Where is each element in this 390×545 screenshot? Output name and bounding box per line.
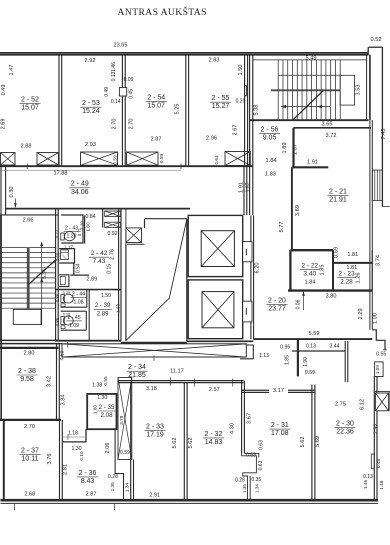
svg-text:15.07: 15.07 bbox=[147, 103, 165, 110]
elevator shaft 2 outer box bbox=[188, 280, 243, 339]
wall room 2-52 | 2-53 bbox=[58, 55, 60, 166]
svg-text:0.26: 0.26 bbox=[235, 477, 245, 483]
svg-text:1.81: 1.81 bbox=[347, 252, 358, 258]
svg-text:2.96: 2.96 bbox=[206, 136, 217, 142]
svg-text:0.06: 0.06 bbox=[295, 299, 301, 309]
rooms 22/23 bottom wall bbox=[288, 289, 372, 291]
left outer wall lower bbox=[0, 215, 2, 342]
svg-text:5.77: 5.77 bbox=[279, 222, 285, 233]
svg-text:1.18: 1.18 bbox=[68, 430, 78, 436]
svg-text:1.35: 1.35 bbox=[242, 484, 247, 493]
room 2-36 top wall and step bbox=[62, 441, 86, 443]
svg-text:5.62: 5.62 bbox=[172, 438, 178, 449]
cubicle column right wall bbox=[118, 209, 120, 341]
room 2-30 right wall bbox=[373, 376, 375, 500]
svg-text:0.25: 0.25 bbox=[63, 291, 70, 295]
elevator shaft 1 X bbox=[201, 231, 234, 267]
svg-text:3.78: 3.78 bbox=[119, 415, 124, 425]
closet small box bbox=[59, 275, 69, 287]
room 2-37 right wall bbox=[59, 420, 61, 500]
stair direction arrow horizontal bbox=[281, 106, 330, 108]
svg-text:2.67: 2.67 bbox=[233, 125, 239, 136]
sink symbol bbox=[61, 250, 69, 260]
radiator box room 52 bbox=[37, 153, 59, 166]
room 2-38 right wall bbox=[56, 343, 58, 420]
svg-text:0.92: 0.92 bbox=[107, 231, 117, 237]
svg-text:0.52: 0.52 bbox=[371, 37, 382, 43]
svg-text:8.43: 8.43 bbox=[81, 478, 95, 485]
stairwell diagonal bbox=[28, 259, 56, 284]
svg-text:2.80: 2.80 bbox=[24, 350, 35, 356]
svg-text:1.90: 1.90 bbox=[303, 357, 309, 367]
stairwell lower landing void bbox=[13, 309, 41, 324]
radiator box room 55 bbox=[225, 152, 250, 166]
svg-text:0.59: 0.59 bbox=[159, 154, 164, 164]
room 2-37 top wall bbox=[0, 419, 61, 421]
svg-text:2.29: 2.29 bbox=[358, 309, 364, 320]
bottom corridor jog near 1.13 bbox=[240, 345, 253, 359]
svg-text:2 - 37: 2 - 37 bbox=[21, 447, 39, 454]
svg-text:0.72: 0.72 bbox=[55, 229, 60, 238]
stair landing void rectangle bbox=[340, 75, 354, 105]
svg-text:1.47: 1.47 bbox=[9, 65, 15, 76]
svg-text:0.13: 0.13 bbox=[363, 474, 373, 480]
svg-text:9.58: 9.58 bbox=[20, 376, 34, 383]
bottom outer wall bbox=[1, 499, 379, 502]
room 2-56 top region walls bbox=[294, 127, 372, 129]
svg-text:2.69: 2.69 bbox=[0, 119, 6, 130]
svg-text:2 - 31: 2 - 31 bbox=[271, 422, 289, 429]
svg-text:0.69: 0.69 bbox=[305, 370, 315, 376]
svg-text:5.38: 5.38 bbox=[253, 105, 259, 116]
X box at x127 bbox=[126, 228, 142, 243]
svg-text:0.30: 0.30 bbox=[9, 187, 15, 198]
svg-text:2 - 32: 2 - 32 bbox=[205, 431, 223, 438]
svg-text:2.70: 2.70 bbox=[112, 119, 118, 130]
corridor 2-34 bottom wall (top of bottom rooms) bbox=[118, 380, 244, 382]
room 2-35 box bbox=[87, 394, 116, 429]
top-right step wall 0.52 strip bbox=[369, 46, 383, 48]
svg-text:3.42: 3.42 bbox=[47, 376, 53, 387]
svg-text:ANTRAS AUKŠTAS: ANTRAS AUKŠTAS bbox=[118, 6, 207, 18]
svg-text:2.88: 2.88 bbox=[21, 144, 32, 150]
svg-text:9.05: 9.05 bbox=[263, 134, 277, 141]
svg-text:2.89: 2.89 bbox=[97, 311, 109, 317]
svg-text:0.96: 0.96 bbox=[280, 344, 290, 350]
wall stub left of hatch boxes bbox=[102, 209, 104, 228]
room 2-38 left wall bbox=[0, 339, 2, 420]
svg-text:0.63: 0.63 bbox=[246, 453, 256, 459]
small boxes right of cubicles (hatched pair) bbox=[105, 211, 121, 217]
svg-text:10.11: 10.11 bbox=[22, 455, 39, 462]
room 2-23 right wall bbox=[371, 250, 373, 290]
svg-text:17.19: 17.19 bbox=[146, 432, 164, 439]
window right wall vertical lines bbox=[372, 170, 382, 201]
dim ticks on bottom rooms top wall bbox=[193, 379, 195, 387]
svg-text:2.76: 2.76 bbox=[109, 249, 115, 260]
svg-text:2.92: 2.92 bbox=[85, 58, 96, 64]
svg-text:17.08: 17.08 bbox=[271, 430, 289, 437]
pilaster at wall 53|54 bbox=[119, 88, 126, 96]
svg-text:1.50: 1.50 bbox=[101, 293, 111, 299]
svg-text:2 - 42: 2 - 42 bbox=[91, 250, 108, 257]
svg-text:3.80: 3.80 bbox=[326, 294, 337, 300]
dim 0.30 pointer bbox=[14, 199, 16, 208]
wall 2-33 | 2-32 bbox=[183, 382, 185, 500]
dim line 1.18 bbox=[62, 436, 86, 438]
wall room 2-55 right bbox=[244, 55, 246, 167]
corridor right wall at x244 bbox=[243, 166, 245, 215]
wall below xbox bbox=[127, 243, 145, 245]
svg-text:23.77: 23.77 bbox=[268, 305, 286, 312]
stair flight divider line upper bbox=[278, 74, 340, 76]
svg-text:0.49: 0.49 bbox=[1, 85, 7, 96]
svg-text:7.43: 7.43 bbox=[381, 129, 387, 140]
bottom-right window box bbox=[375, 393, 388, 411]
svg-text:0.10: 0.10 bbox=[79, 451, 84, 461]
svg-text:1.34: 1.34 bbox=[124, 483, 129, 493]
stair mid landing line bbox=[271, 89, 340, 91]
svg-text:0.59: 0.59 bbox=[333, 247, 339, 258]
radiator box room 54 left bbox=[127, 152, 159, 165]
svg-text:2.28: 2.28 bbox=[340, 279, 353, 286]
elevator shaft 1 door bbox=[243, 242, 252, 262]
svg-text:14.83: 14.83 bbox=[205, 439, 223, 446]
jog wall to x385 bbox=[372, 330, 385, 350]
svg-text:0.20: 0.20 bbox=[236, 98, 246, 104]
svg-text:0.63: 0.63 bbox=[259, 440, 265, 450]
svg-text:0.55: 0.55 bbox=[103, 376, 108, 386]
svg-text:21.91: 21.91 bbox=[329, 197, 347, 204]
svg-text:0.60: 0.60 bbox=[55, 252, 60, 261]
wall y289 cubicles 44 top bbox=[56, 289, 121, 291]
svg-text:2 - 55: 2 - 55 bbox=[212, 95, 230, 102]
svg-text:2.92: 2.92 bbox=[374, 423, 380, 434]
svg-text:15.07: 15.07 bbox=[21, 105, 39, 112]
pilaster on right wall of 2-30 bbox=[371, 454, 374, 469]
svg-text:1.85: 1.85 bbox=[320, 265, 326, 276]
svg-text:1.60: 1.60 bbox=[86, 222, 91, 232]
elevator shaft 1 outer box bbox=[188, 215, 243, 276]
svg-text:1.60: 1.60 bbox=[93, 405, 98, 415]
svg-text:1.29: 1.29 bbox=[66, 233, 76, 239]
slot walls x121-126 bbox=[125, 209, 127, 245]
svg-text:2.57: 2.57 bbox=[209, 387, 220, 393]
svg-text:1.46: 1.46 bbox=[111, 62, 117, 72]
svg-text:1.17: 1.17 bbox=[64, 245, 74, 250]
right outer wall upper (double) bbox=[381, 47, 383, 206]
svg-text:1.26: 1.26 bbox=[356, 273, 362, 284]
room 2-20 bottom wall y339 bbox=[254, 338, 373, 340]
svg-text:0.85: 0.85 bbox=[55, 317, 60, 326]
svg-text:0.48: 0.48 bbox=[376, 459, 381, 469]
svg-text:2 - 36: 2 - 36 bbox=[79, 470, 97, 477]
right wall of room 2-21 (double) bbox=[369, 120, 371, 330]
svg-text:2 - 22: 2 - 22 bbox=[301, 263, 318, 270]
svg-text:1.13: 1.13 bbox=[259, 353, 269, 359]
trapezoid region walls bbox=[145, 218, 188, 220]
svg-text:1.34: 1.34 bbox=[254, 484, 259, 493]
svg-text:1.08: 1.08 bbox=[73, 299, 83, 305]
elevator lobby wall right of shafts bbox=[250, 215, 252, 339]
closet box 1.59 bbox=[375, 362, 384, 377]
svg-text:4.60: 4.60 bbox=[60, 350, 66, 360]
svg-text:2 - 35: 2 - 35 bbox=[99, 404, 115, 411]
stairwell bottom wall (double) bbox=[0, 339, 59, 341]
top wall of room 2-31 (stepped lower) bbox=[242, 389, 269, 391]
svg-text:15.27: 15.27 bbox=[212, 103, 230, 110]
long window band with X bbox=[62, 344, 246, 357]
svg-text:2.66: 2.66 bbox=[23, 217, 34, 223]
svg-text:5.59: 5.59 bbox=[309, 331, 320, 337]
radiator box room 52 left edge bbox=[1, 153, 16, 166]
svg-text:1.85: 1.85 bbox=[285, 355, 291, 365]
stair treads bbox=[277, 60, 279, 120]
svg-text:1.20: 1.20 bbox=[79, 221, 84, 230]
cubicle 2-43 box bbox=[61, 215, 83, 243]
svg-text:2.75: 2.75 bbox=[335, 401, 346, 407]
tick right edge y206 bbox=[382, 206, 389, 208]
top outer wall bbox=[0, 52, 369, 54]
room 2-22 box bbox=[290, 249, 333, 251]
svg-text:0.28: 0.28 bbox=[108, 474, 118, 480]
room 2-39 top wall with door gap bbox=[89, 289, 98, 291]
svg-text:3.44: 3.44 bbox=[329, 344, 339, 350]
svg-text:2 - 38: 2 - 38 bbox=[18, 368, 36, 375]
vertical shaft band x118-132 bbox=[118, 378, 132, 460]
stair block left wall bbox=[249, 55, 251, 166]
svg-text:0.45: 0.45 bbox=[128, 89, 134, 99]
svg-text:1.30: 1.30 bbox=[97, 395, 107, 401]
svg-text:3.40: 3.40 bbox=[303, 271, 316, 278]
svg-text:2 - 34: 2 - 34 bbox=[128, 364, 146, 371]
stairwell treads bbox=[1, 247, 56, 249]
svg-text:2.68: 2.68 bbox=[24, 491, 35, 497]
svg-text:2.83: 2.83 bbox=[209, 58, 220, 64]
svg-text:1.59: 1.59 bbox=[375, 365, 380, 374]
svg-text:3.17: 3.17 bbox=[273, 388, 284, 394]
svg-text:1.89: 1.89 bbox=[282, 143, 288, 154]
svg-text:1.91: 1.91 bbox=[239, 182, 245, 193]
svg-text:1.87: 1.87 bbox=[245, 182, 251, 192]
bottom-right window top line bbox=[375, 390, 390, 392]
svg-text:2 - 49: 2 - 49 bbox=[71, 181, 89, 188]
svg-text:1.09: 1.09 bbox=[69, 323, 79, 329]
svg-text:2 - 52: 2 - 52 bbox=[21, 97, 39, 104]
room 2-38 top wall bbox=[0, 347, 59, 349]
svg-text:1.46: 1.46 bbox=[363, 479, 368, 489]
stairwell center divider bbox=[27, 248, 30, 309]
svg-text:0.55: 0.55 bbox=[376, 352, 386, 358]
svg-text:5.25: 5.25 bbox=[175, 104, 181, 115]
svg-text:1.84: 1.84 bbox=[266, 158, 277, 164]
stair block right wall bbox=[366, 55, 368, 121]
svg-text:2 - 30: 2 - 30 bbox=[336, 421, 354, 428]
svg-text:17.88: 17.88 bbox=[54, 171, 68, 177]
svg-text:2.89: 2.89 bbox=[86, 277, 97, 283]
wall top of room 2-21 bbox=[292, 166, 328, 168]
svg-text:3.65: 3.65 bbox=[322, 122, 333, 128]
svg-text:6.20: 6.20 bbox=[254, 263, 260, 274]
corridor 2-49 bottom wall bbox=[5, 208, 190, 210]
svg-text:2.70: 2.70 bbox=[129, 119, 135, 130]
svg-text:1.87: 1.87 bbox=[293, 144, 299, 155]
svg-text:3.18: 3.18 bbox=[146, 386, 157, 392]
svg-text:2 - 56: 2 - 56 bbox=[261, 126, 279, 133]
wall x84-86 room 2-42 left bbox=[84, 216, 86, 244]
svg-text:2.91: 2.91 bbox=[149, 492, 160, 498]
svg-text:1.35: 1.35 bbox=[110, 482, 115, 492]
svg-text:0.09: 0.09 bbox=[124, 77, 134, 83]
svg-text:7.43: 7.43 bbox=[93, 258, 106, 265]
svg-text:2 - 33: 2 - 33 bbox=[146, 424, 164, 431]
svg-text:0.54: 0.54 bbox=[76, 263, 82, 273]
svg-text:1.91: 1.91 bbox=[307, 159, 318, 165]
svg-text:1.30: 1.30 bbox=[71, 446, 81, 452]
svg-text:2.70: 2.70 bbox=[24, 424, 35, 430]
svg-text:0.14: 0.14 bbox=[111, 99, 121, 105]
svg-text:2 - 44: 2 - 44 bbox=[72, 291, 85, 297]
svg-text:3.72: 3.72 bbox=[326, 133, 337, 139]
svg-text:23.65: 23.65 bbox=[114, 42, 128, 48]
svg-text:3.76: 3.76 bbox=[47, 454, 53, 465]
svg-text:22.36: 22.36 bbox=[336, 429, 354, 436]
svg-text:3.53: 3.53 bbox=[356, 85, 362, 96]
svg-text:6.12: 6.12 bbox=[360, 399, 366, 410]
svg-text:2.81: 2.81 bbox=[63, 464, 69, 475]
wall 2-32 | 2-31 with niche bbox=[241, 381, 243, 454]
svg-text:1.50: 1.50 bbox=[238, 65, 244, 76]
svg-text:0.59: 0.59 bbox=[112, 155, 117, 165]
elevator shaft 2 X bbox=[202, 292, 234, 328]
radiator box room 53 bbox=[81, 152, 118, 165]
svg-text:0.13: 0.13 bbox=[306, 344, 316, 350]
corridor top wall from shafts to right bbox=[187, 340, 254, 342]
svg-text:3.69: 3.69 bbox=[295, 205, 301, 216]
svg-text:1.00: 1.00 bbox=[373, 313, 379, 324]
stairwell right wall bbox=[55, 209, 57, 342]
svg-text:21.85: 21.85 bbox=[128, 372, 146, 379]
svg-text:1.49: 1.49 bbox=[379, 480, 384, 490]
room 2-23 top wall bbox=[333, 262, 372, 264]
stair block top inner line bbox=[253, 59, 367, 61]
svg-text:1.93: 1.93 bbox=[115, 304, 120, 314]
wall segment y351 x292-345 bbox=[292, 350, 345, 352]
svg-text:4.30: 4.30 bbox=[230, 423, 236, 434]
svg-text:2.87: 2.87 bbox=[151, 137, 162, 143]
svg-text:0.63: 0.63 bbox=[258, 460, 264, 470]
trapezoid right wall bbox=[186, 219, 188, 342]
svg-text:11.17: 11.17 bbox=[170, 368, 184, 374]
elevator shaft 2 door bbox=[243, 301, 252, 322]
svg-text:2.87: 2.87 bbox=[86, 491, 97, 497]
svg-text:2 - 39: 2 - 39 bbox=[95, 303, 111, 309]
svg-text:1.84: 1.84 bbox=[305, 279, 316, 285]
wall below 2-22 marker 0.06 bbox=[303, 292, 305, 311]
svg-text:0.15: 0.15 bbox=[107, 264, 113, 274]
stair block bottom wall bbox=[250, 119, 369, 121]
hall 2-56 left wall lower bbox=[249, 166, 251, 215]
svg-text:1.38: 1.38 bbox=[92, 382, 102, 388]
bottom wall under cubicles bbox=[56, 340, 121, 342]
svg-text:2.06: 2.06 bbox=[105, 443, 111, 454]
stub wall x298 down bbox=[297, 339, 299, 376]
svg-text:5.62: 5.62 bbox=[188, 438, 194, 449]
room 2-21 left wall bbox=[291, 167, 293, 250]
svg-text:2 - 21: 2 - 21 bbox=[329, 189, 347, 196]
corridor 2-34 top wall from x126-186 bbox=[121, 342, 187, 344]
svg-text:0.85: 0.85 bbox=[55, 293, 60, 302]
notch 0.20 in wall 55 right bbox=[245, 85, 247, 95]
wall below sink room bbox=[73, 263, 75, 275]
trapezoid diagonal bbox=[126, 220, 187, 341]
stairwell top wall bbox=[0, 214, 58, 216]
wall room 2-53 | 2-54 bbox=[121, 55, 123, 166]
wall room 2-54 | 2-55 bbox=[185, 55, 187, 166]
svg-text:5.69: 5.69 bbox=[315, 436, 321, 447]
stair diagonal up line bbox=[293, 90, 324, 119]
dim line 17.88 ticks bbox=[26, 163, 28, 169]
svg-text:2.93: 2.93 bbox=[85, 142, 96, 148]
svg-text:3.84: 3.84 bbox=[60, 395, 66, 406]
wall x345 y345-382 bbox=[344, 341, 346, 382]
svg-text:2 - 23: 2 - 23 bbox=[338, 271, 355, 278]
svg-text:0.61: 0.61 bbox=[214, 155, 219, 165]
stairwell up arrows bbox=[41, 242, 43, 325]
svg-text:5.62: 5.62 bbox=[300, 437, 306, 448]
svg-text:3.74: 3.74 bbox=[376, 255, 382, 266]
svg-text:2.08: 2.08 bbox=[100, 412, 113, 419]
svg-text:2 - 53: 2 - 53 bbox=[82, 100, 100, 107]
svg-text:3.67: 3.67 bbox=[247, 413, 253, 424]
svg-text:0.59: 0.59 bbox=[120, 450, 130, 456]
svg-text:5.49: 5.49 bbox=[306, 55, 317, 61]
sink room box bbox=[59, 249, 74, 263]
svg-text:2 - 20: 2 - 20 bbox=[268, 297, 286, 304]
toilet 2-43 bbox=[61, 233, 64, 240]
cubicle 2-44 box / toilet bbox=[86, 290, 88, 308]
wall 2-31 | 2-30 bbox=[311, 385, 313, 501]
cubicle 2-45 box / toilet bbox=[61, 310, 87, 312]
svg-text:0.49: 0.49 bbox=[104, 87, 110, 97]
svg-text:0.35: 0.35 bbox=[251, 477, 261, 483]
svg-text:2 - 45: 2 - 45 bbox=[67, 315, 80, 321]
room 2-33 left wall bbox=[130, 383, 132, 500]
svg-text:1.83: 1.83 bbox=[265, 171, 276, 177]
svg-text:34.06: 34.06 bbox=[71, 189, 89, 196]
svg-text:5.34: 5.34 bbox=[42, 269, 48, 279]
svg-text:0.84: 0.84 bbox=[85, 214, 95, 220]
room 2-36 right wall bbox=[114, 429, 116, 460]
svg-text:2 - 54: 2 - 54 bbox=[147, 95, 165, 102]
bottom wall of top room row bbox=[0, 165, 253, 167]
svg-text:15.24: 15.24 bbox=[82, 108, 100, 115]
